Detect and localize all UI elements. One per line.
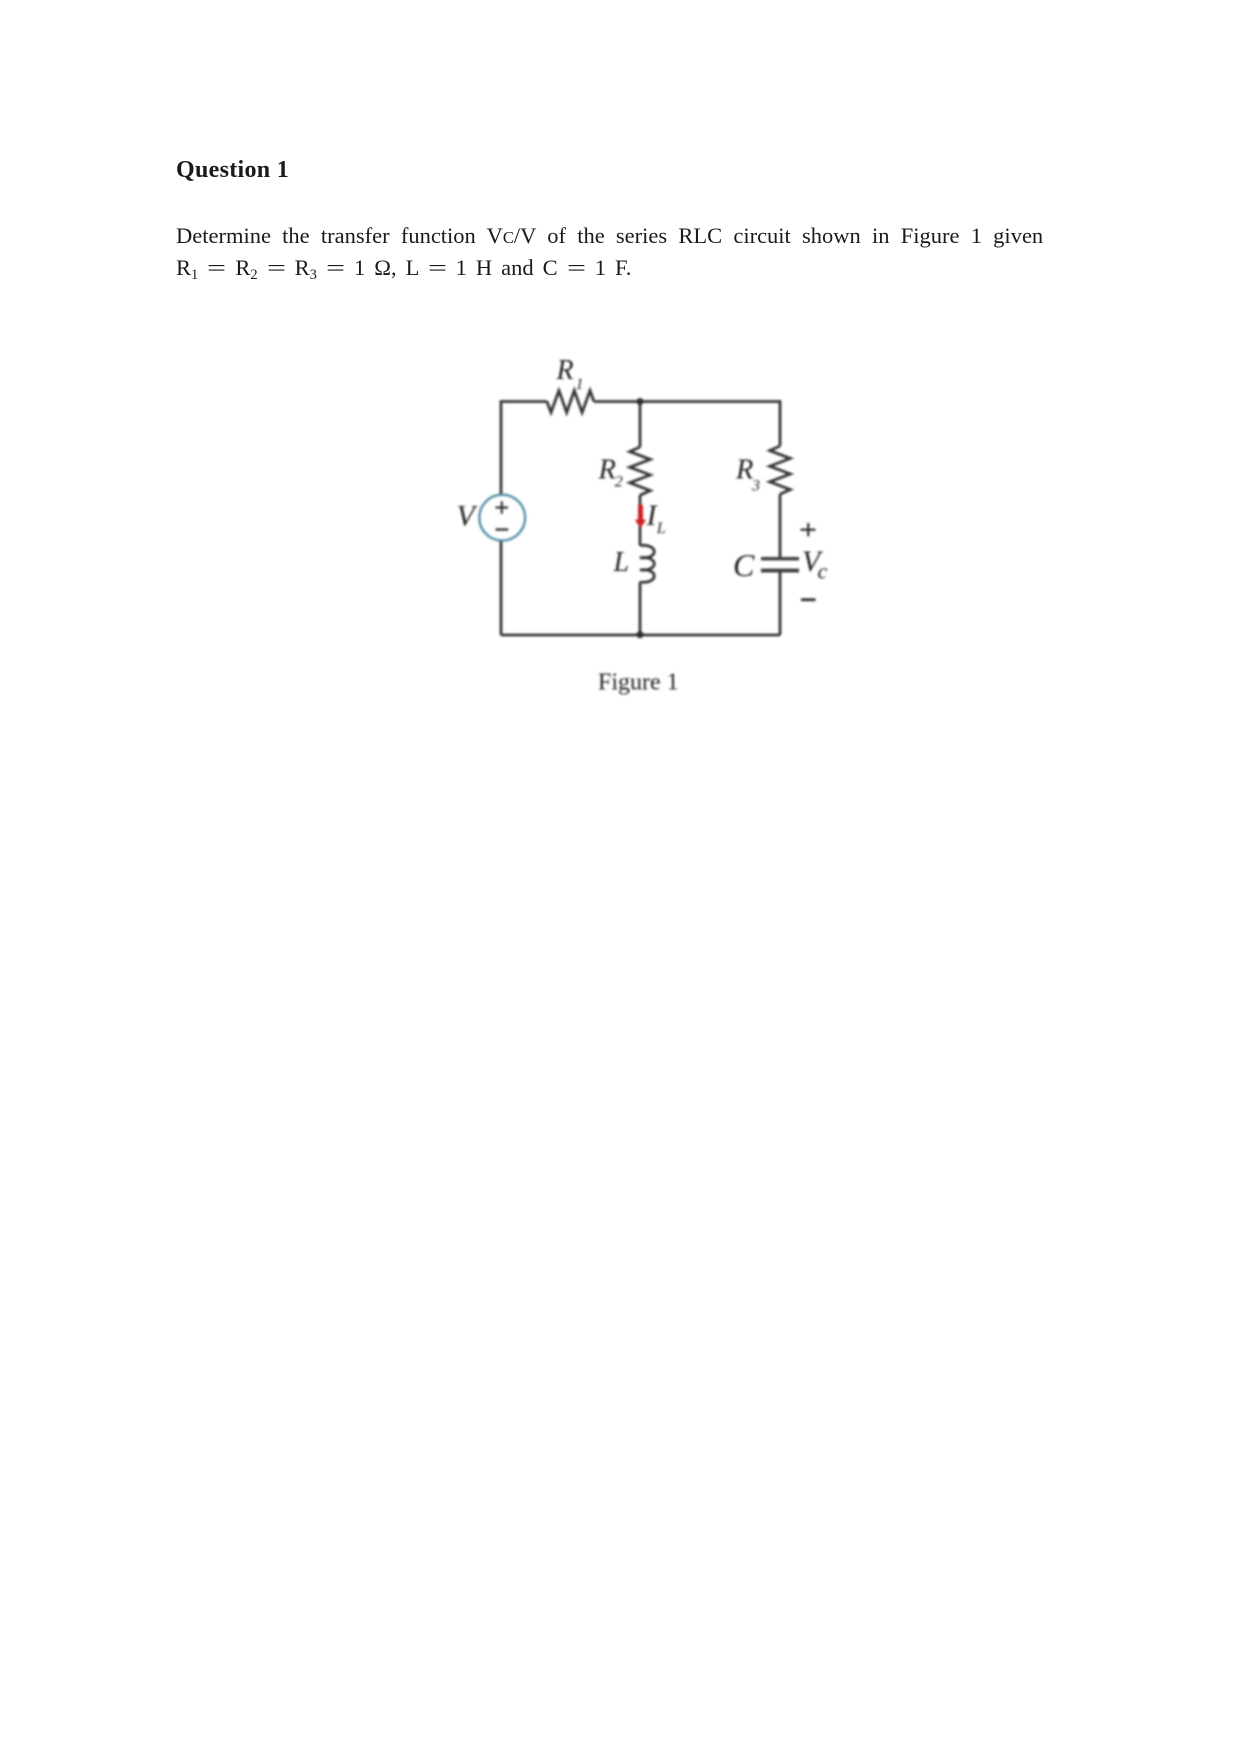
wire top-left segment (501, 402, 547, 496)
current arrow IL (635, 505, 646, 528)
minus sign VC (801, 598, 816, 601)
voltage source plus sign (496, 501, 509, 514)
wire right between R3 and C (779, 494, 782, 557)
figure caption (598, 670, 679, 696)
label L inductor (613, 547, 630, 578)
wire top segment to right branch (594, 402, 780, 447)
label V source (457, 500, 479, 533)
svg-text:R: R (735, 454, 753, 485)
paragraph problem statement line 2 (176, 255, 631, 280)
label C capacitor (733, 547, 755, 583)
svg-text:V: V (457, 500, 479, 533)
svg-text:R: R (598, 454, 616, 485)
svg-text:2: 2 (615, 474, 623, 491)
wire left lower (500, 540, 503, 635)
inductor L (640, 545, 654, 582)
resistor R1 (547, 391, 594, 413)
svg-text:3: 3 (751, 478, 760, 495)
plus sign VC (801, 523, 816, 536)
svg-text:C: C (733, 547, 755, 583)
node junction top (637, 398, 644, 405)
svg-text:c: c (818, 559, 828, 584)
svg-text:L: L (656, 520, 666, 537)
wire right below capacitor (779, 572, 782, 635)
svg-text:1: 1 (576, 376, 584, 393)
resistor R3 (770, 446, 791, 494)
wire middle branch lower (639, 582, 642, 635)
heading Question 1 (176, 157, 289, 184)
node junction bottom (637, 631, 644, 638)
wire middle branch upper (639, 402, 642, 448)
label VC output (802, 545, 828, 584)
capacitor C plates (761, 557, 799, 573)
resistor R2 (630, 447, 651, 495)
label R1 (556, 355, 584, 393)
label R2 (598, 454, 623, 490)
voltage source minus sign (496, 528, 509, 530)
svg-text:R: R (556, 355, 574, 386)
paragraph problem statement line 1 (176, 223, 1043, 250)
wire bottom (501, 634, 780, 637)
wire middle between R2 and L (639, 495, 642, 545)
label IL current (646, 499, 666, 537)
voltage source V circle (479, 495, 525, 541)
label R3 (735, 454, 760, 494)
svg-text:Figure 1: Figure 1 (598, 670, 679, 696)
svg-text:L: L (613, 547, 630, 578)
